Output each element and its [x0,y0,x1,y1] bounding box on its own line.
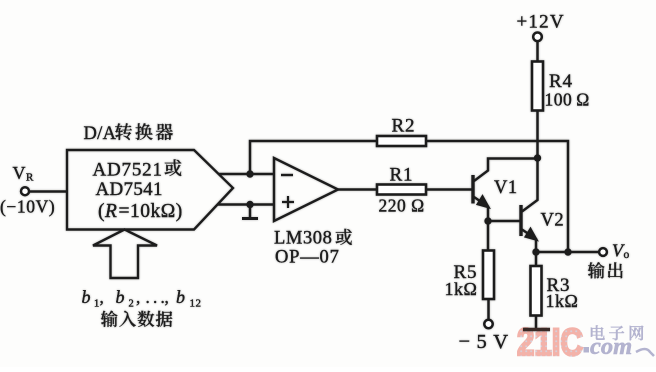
svg-text:R2: R2 [392,116,416,137]
svg-text:1kΩ: 1kΩ [445,279,478,299]
svg-text:1kΩ: 1kΩ [546,291,579,311]
svg-text:b: b [82,287,91,307]
svg-text:(−10V): (−10V) [0,197,55,217]
svg-text:2: 2 [129,299,135,310]
svg-text:100 Ω: 100 Ω [545,90,590,110]
svg-text:D/A: D/A [84,124,117,144]
svg-text:,: , [100,288,105,307]
svg-text:o: o [624,249,630,261]
svg-text:+12V: +12V [517,12,565,33]
svg-text:.: . [153,288,158,307]
svg-text:AD7541: AD7541 [96,179,163,200]
svg-text:V1: V1 [494,178,518,198]
svg-text:R1: R1 [390,165,414,186]
svg-text:R: R [26,172,34,184]
svg-text:R: R [104,201,117,222]
svg-text:b: b [176,287,185,307]
svg-text:b: b [116,287,125,307]
svg-text:OP—07: OP—07 [275,248,340,268]
svg-text:V2: V2 [541,211,565,231]
svg-text:−5V: −5V [459,331,515,353]
svg-text:12: 12 [190,298,202,310]
svg-text:220 Ω: 220 Ω [379,196,425,216]
svg-text:(: ( [98,201,105,222]
svg-text:,: , [136,288,141,307]
svg-text:com: com [590,333,632,360]
svg-text:,: , [165,288,170,307]
svg-text:LM308: LM308 [274,229,333,249]
svg-text:.: . [146,288,151,307]
svg-text:V: V [13,163,26,183]
svg-text:=10kΩ): =10kΩ) [119,201,183,222]
svg-text:AD7521: AD7521 [93,160,163,181]
